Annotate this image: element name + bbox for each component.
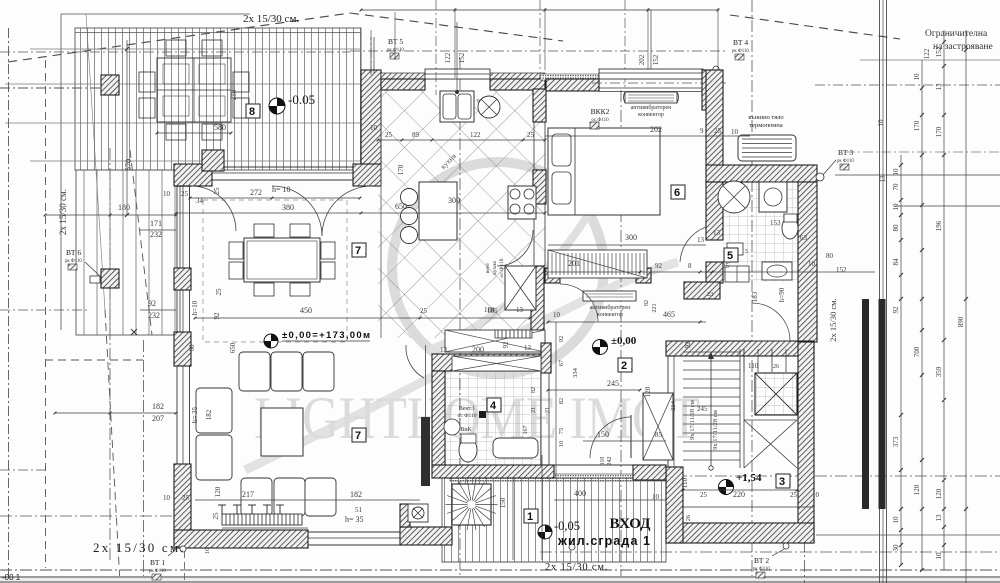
wc 4 tiles — [445, 373, 541, 465]
svg-text:7: 7 — [355, 245, 361, 257]
kitchen diagonal tile floor — [378, 90, 545, 338]
stair direction line — [710, 352, 712, 468]
svg-text:465: 465 — [663, 310, 675, 319]
svg-text:2х 15/30 см.: 2х 15/30 см. — [828, 298, 838, 341]
svg-text:.: . — [365, 433, 367, 442]
svg-text:182: 182 — [205, 409, 213, 420]
svg-text:182: 182 — [152, 402, 164, 411]
coffee table — [261, 408, 303, 456]
wc east wall upper — [541, 343, 551, 373]
kitchen west wall upper — [361, 70, 381, 170]
svg-text:120: 120 — [214, 486, 222, 497]
living east wall pier — [421, 417, 430, 486]
svg-text:10: 10 — [652, 493, 660, 501]
room label 4 — [487, 398, 501, 412]
benchmark -0.05 terrace — [269, 98, 285, 114]
svg-text:110: 110 — [681, 477, 689, 488]
svg-text:30: 30 — [892, 544, 900, 552]
svg-text:10: 10 — [892, 168, 900, 176]
stairs north wall — [666, 341, 814, 356]
svg-text:10: 10 — [892, 516, 900, 524]
svg-text:63: 63 — [800, 234, 808, 242]
svg-text:245: 245 — [697, 405, 708, 413]
dash-dot vertical axis x=460 — [459, 58, 461, 583]
svg-text:10: 10 — [163, 190, 171, 198]
svg-text:ВТ 4: ВТ 4 — [733, 38, 748, 47]
svg-text:h= 35: h= 35 — [345, 515, 364, 524]
svg-text:7: 7 — [355, 430, 361, 442]
svg-text:26: 26 — [773, 364, 779, 370]
svg-text:рк Ф110: рк Ф110 — [837, 159, 854, 164]
dining north wall left block — [174, 164, 212, 186]
svg-text:272: 272 — [250, 188, 262, 197]
svg-text:±0,00: ±0,00 — [611, 335, 637, 347]
svg-text:10: 10 — [913, 73, 921, 81]
svg-text:188: 188 — [484, 306, 495, 314]
sofa top row — [239, 352, 270, 391]
tv bench — [222, 514, 302, 525]
svg-text:196: 196 — [935, 220, 943, 231]
svg-text:8: 8 — [249, 106, 255, 118]
svg-text:10: 10 — [163, 494, 171, 502]
south sliding window living — [308, 531, 440, 533]
svg-text:конвектор: конвектор — [638, 112, 664, 118]
entrance door leaf and arc — [630, 415, 632, 458]
deck outer frame corner — [60, 14, 62, 330]
svg-text:2х 15/30 см.: 2х 15/30 см. — [58, 189, 68, 235]
bathroom east wall — [798, 182, 817, 342]
kitchen island — [419, 182, 457, 240]
stair flight treads — [683, 349, 786, 468]
svg-text:10: 10 — [812, 491, 820, 499]
dining chairs — [254, 224, 274, 237]
kitchen north wall insulation strip — [381, 73, 545, 79]
bathroom vanity squares — [725, 266, 749, 282]
svg-text:5: 5 — [727, 250, 733, 262]
svg-text:232: 232 — [150, 230, 162, 239]
dining north window — [212, 166, 353, 168]
terrace chairs — [166, 40, 186, 56]
svg-text:245: 245 — [607, 379, 619, 388]
left deck strip — [76, 170, 180, 335]
wardrobe with hangers — [548, 250, 647, 278]
svg-text:25: 25 — [527, 131, 535, 139]
svg-text:400: 400 — [574, 489, 586, 498]
svg-text:13: 13 — [935, 514, 943, 522]
bedroom top dim row — [545, 135, 750, 137]
benchmark hall — [593, 340, 608, 355]
svg-text:67: 67 — [558, 359, 565, 366]
svg-text:580: 580 — [214, 123, 226, 132]
hall north wall stub — [636, 268, 651, 283]
svg-text:82: 82 — [558, 398, 565, 405]
svg-text:.: . — [537, 514, 539, 523]
dashed diagonal through left strip — [130, 150, 152, 335]
property boundary dash-dot left — [8, 28, 10, 583]
svg-text:92: 92 — [148, 299, 156, 308]
svg-text:80: 80 — [892, 224, 900, 232]
bedroom convector — [625, 92, 677, 103]
svg-text:термопомпа: термопомпа — [749, 122, 782, 129]
dining table — [244, 238, 320, 282]
svg-text:171: 171 — [150, 219, 162, 228]
entrance north wall (hall south) — [554, 464, 666, 466]
svg-text:9х 17/11/28 см: 9х 17/11/28 см — [712, 410, 719, 450]
svg-text:.: . — [789, 479, 791, 488]
south wall living — [174, 530, 308, 548]
svg-text:182: 182 — [350, 490, 362, 499]
svg-text:122: 122 — [444, 52, 452, 63]
tv marks — [218, 505, 284, 514]
svg-text:23: 23 — [707, 291, 714, 298]
bathroom north wall — [706, 165, 817, 182]
porch corner wall v — [400, 504, 410, 527]
svg-text:ВТ 6: ВТ 6 — [66, 248, 81, 257]
svg-text:110: 110 — [600, 457, 606, 466]
terrace deck top-left with plank hatch — [75, 28, 361, 170]
stairs south wall — [666, 523, 814, 543]
bathroom west wall lower — [706, 262, 723, 283]
svg-text:h=10: h=10 — [191, 300, 199, 315]
svg-text:110: 110 — [748, 362, 759, 370]
kitchen north wall left block — [381, 79, 425, 90]
svg-text:25: 25 — [213, 187, 221, 195]
svg-text:2х 15/30 см.: 2х 15/30 см. — [93, 540, 186, 555]
svg-text:84: 84 — [892, 258, 900, 266]
svg-text:10: 10 — [877, 119, 885, 127]
dining area dashed outline — [203, 200, 347, 342]
deck post 3 — [101, 269, 119, 288]
axis horizontal y=52 left part — [0, 51, 350, 53]
svg-text:+1,54: +1,54 — [736, 472, 762, 484]
kitchen north wall right block — [490, 79, 545, 90]
svg-text:h= 35: h= 35 — [191, 406, 199, 423]
hall closet x-box — [643, 393, 673, 460]
stairs entry door arc — [752, 303, 790, 341]
setback diagonal dashed line top — [8, 13, 350, 62]
svg-text:ос Ф110: ос Ф110 — [457, 413, 476, 419]
road lines bottom — [0, 576, 1000, 583]
fridge with cross — [505, 266, 536, 310]
bar stools — [401, 189, 418, 206]
svg-text:183: 183 — [751, 291, 759, 302]
svg-text:92: 92 — [213, 312, 221, 320]
svg-text:202: 202 — [650, 125, 662, 134]
faint slanted line — [86, 14, 105, 310]
svg-text:h= 10: h= 10 — [272, 185, 291, 194]
svg-text:170: 170 — [397, 164, 405, 175]
svg-text:92: 92 — [655, 262, 663, 270]
svg-text:152: 152 — [652, 54, 660, 65]
wc4 toilet — [459, 438, 477, 462]
svg-text:51: 51 — [355, 506, 363, 514]
wc south wall — [432, 465, 554, 478]
x-brace closet top of wc — [452, 356, 541, 371]
svg-text:10: 10 — [731, 128, 739, 136]
svg-text:9х 17/11/28 см: 9х 17/11/28 см — [689, 400, 696, 440]
svg-text:122: 122 — [923, 48, 931, 59]
right boundary thin verticals — [879, 0, 881, 583]
svg-text:4: 4 — [490, 400, 497, 412]
entrance deck planks bottom — [442, 478, 666, 562]
svg-text:-0,05: -0,05 — [554, 519, 580, 533]
svg-text:конвектор: конвектор — [597, 312, 623, 318]
svg-text:300: 300 — [448, 196, 460, 205]
svg-text:1: 1 — [527, 511, 533, 523]
svg-text:жил.сграда 1: жил.сграда 1 — [557, 534, 650, 548]
svg-text:25: 25 — [385, 131, 393, 139]
room label 5 — [724, 248, 738, 262]
entrance threshold wall block — [633, 465, 666, 480]
bathroom west wall upper — [706, 182, 723, 240]
svg-text:9: 9 — [700, 127, 704, 135]
svg-text:220: 220 — [733, 490, 745, 499]
svg-text:рк Ф110: рк Ф110 — [65, 259, 82, 264]
small pit with circle — [408, 504, 428, 522]
dining double door arcs — [272, 186, 322, 236]
svg-text:25: 25 — [714, 127, 722, 135]
svg-text:221: 221 — [652, 304, 658, 313]
svg-text:359: 359 — [935, 366, 943, 377]
dash-dot vertical axis x=621 — [620, 90, 622, 583]
bathroom 5 tiles — [723, 182, 798, 282]
hall-bedroom door arc — [560, 284, 598, 322]
svg-text:92: 92 — [558, 336, 565, 343]
dash-dot level line right — [615, 475, 1000, 477]
deck post 1 — [101, 75, 119, 95]
svg-text:външно тяло: външно тяло — [748, 114, 783, 121]
svg-text:2: 2 — [621, 360, 627, 372]
svg-text:10: 10 — [935, 552, 943, 560]
svg-text:25: 25 — [722, 262, 730, 270]
benchmark living room — [264, 334, 278, 348]
svg-text:450: 450 — [300, 306, 312, 315]
svg-text:25: 25 — [212, 512, 220, 520]
svg-text:82: 82 — [531, 387, 537, 393]
wc north wall — [432, 354, 551, 371]
svg-text:152: 152 — [836, 266, 847, 274]
svg-text:10: 10 — [553, 311, 561, 319]
svg-text:ВТ 3: ВТ 3 — [838, 148, 853, 157]
svg-text:650: 650 — [395, 202, 407, 211]
svg-text:.: . — [259, 109, 261, 118]
room label 1 — [524, 509, 538, 523]
svg-text:200: 200 — [472, 345, 484, 354]
svg-text:10: 10 — [892, 203, 900, 211]
svg-text:.: . — [365, 248, 367, 257]
svg-text:217: 217 — [242, 490, 254, 499]
corridor door arc — [497, 230, 533, 266]
terrace table — [157, 58, 231, 122]
right side axis lines — [815, 84, 1000, 86]
dashed horizontal setback — [45, 359, 143, 361]
svg-text:75: 75 — [558, 428, 565, 435]
svg-text:70: 70 — [892, 183, 900, 191]
axis horizontal y=51 — [350, 50, 725, 52]
svg-text:13: 13 — [440, 346, 448, 354]
bed — [548, 128, 660, 215]
watermark logo ring — [245, 162, 678, 470]
svg-text:280: 280 — [230, 89, 238, 100]
svg-text:122: 122 — [470, 131, 481, 139]
svg-text:334: 334 — [572, 367, 579, 378]
svg-text:рк Ф110: рк Ф110 — [387, 48, 404, 53]
deck joints — [30, 48, 361, 50]
svg-text:25: 25 — [181, 190, 189, 198]
svg-text:ос.Ф110: ос.Ф110 — [499, 258, 505, 277]
bedroom north wall left block — [546, 79, 599, 91]
kitchen north window — [425, 69, 490, 79]
svg-text:10: 10 — [370, 124, 378, 132]
svg-text:150: 150 — [597, 430, 609, 439]
svg-text:25: 25 — [700, 491, 708, 499]
west wall with windows — [176, 185, 191, 187]
svg-text:10: 10 — [808, 260, 816, 268]
svg-text:120: 120 — [644, 386, 652, 397]
bedroom north wall dotted band — [540, 74, 599, 80]
retaining wall thick bars right — [862, 299, 869, 509]
svg-text:26: 26 — [685, 514, 692, 521]
hall side dim chain — [555, 322, 557, 478]
west wall block 3 — [174, 332, 191, 366]
svg-text:вент: вент — [485, 262, 491, 273]
svg-text:25: 25 — [215, 288, 223, 296]
svg-text:80: 80 — [826, 252, 834, 260]
svg-text:300: 300 — [625, 233, 637, 242]
end-of-deck x mark — [131, 329, 137, 335]
svg-text:±0,00=+173,00м: ±0,00=+173,00м — [282, 330, 370, 341]
svg-text:.: . — [631, 363, 633, 372]
svg-text:10: 10 — [558, 441, 565, 448]
svg-text:373: 373 — [892, 436, 900, 447]
heat pump unit — [738, 135, 796, 161]
svg-text:ВКК2: ВКК2 — [591, 107, 610, 116]
corridor wall below bathroom door — [684, 282, 720, 299]
svg-text:152: 152 — [935, 46, 943, 57]
room label 6 — [671, 185, 685, 199]
svg-text:рк Ф110: рк Ф110 — [149, 569, 166, 574]
svg-text:92: 92 — [892, 306, 900, 314]
hall convector — [583, 291, 636, 301]
porch column with starburst — [452, 484, 491, 525]
svg-text:6: 6 — [674, 187, 680, 199]
benchmark entrance — [538, 525, 552, 539]
svg-text:570: 570 — [124, 159, 133, 171]
sofa left column — [196, 388, 232, 433]
svg-text:кухня: кухня — [492, 261, 498, 275]
dash-dot axis x=110 — [109, 148, 111, 562]
svg-text:380: 380 — [282, 203, 294, 212]
wc toilet bath5 — [782, 217, 798, 239]
wc4 washbasin — [493, 438, 538, 458]
svg-text:ВТ 2: ВТ 2 — [754, 556, 769, 565]
svg-text:-00 1: -00 1 — [2, 573, 21, 582]
closet between kitchen and wc — [445, 330, 545, 352]
kitchen east wall seg3 — [531, 266, 544, 330]
shower circle — [718, 181, 750, 213]
svg-text:120: 120 — [913, 484, 921, 495]
svg-text:рк Ф110: рк Ф110 — [753, 567, 770, 572]
dashed vertical site line — [45, 60, 47, 568]
west wall door arc top-left — [191, 186, 236, 231]
svg-text:h=90: h=90 — [778, 287, 786, 302]
bedroom top dim stub — [650, 10, 652, 70]
svg-text:.: . — [684, 190, 686, 199]
bathroom door arc — [680, 227, 706, 262]
elevator shaft x-box — [755, 373, 797, 415]
svg-text:201: 201 — [568, 259, 580, 268]
svg-text:92: 92 — [502, 341, 510, 349]
room label 7 — [352, 428, 366, 442]
svg-text:167: 167 — [523, 426, 529, 435]
entrance deck edge dotted strip — [450, 474, 666, 481]
faucet — [455, 90, 459, 94]
svg-text:232: 232 — [148, 311, 160, 320]
pipe circle NE corner — [713, 66, 719, 72]
svg-text:3: 3 — [779, 476, 785, 488]
svg-text:25: 25 — [182, 494, 190, 502]
west wall block bottom — [174, 464, 191, 540]
svg-text:13: 13 — [516, 306, 524, 314]
svg-text:13: 13 — [524, 344, 532, 352]
svg-text:60: 60 — [188, 344, 196, 352]
room label 3 — [776, 474, 790, 488]
svg-text:2х 15/30 см.: 2х 15/30 см. — [545, 562, 608, 573]
stairs east wall — [798, 342, 814, 543]
small sink top — [727, 243, 743, 255]
bedroom north window — [599, 69, 703, 79]
svg-text:Вент.1: Вент.1 — [459, 406, 476, 412]
svg-text:82: 82 — [644, 300, 650, 306]
svg-text:ВТ 1: ВТ 1 — [150, 558, 165, 567]
washing machine — [759, 182, 787, 212]
stairs west wall bottom — [666, 467, 683, 543]
svg-text:21: 21 — [545, 407, 551, 413]
svg-text:180: 180 — [118, 203, 130, 212]
svg-text:207: 207 — [152, 414, 164, 423]
svg-text:13: 13 — [697, 236, 705, 244]
room label 8 — [246, 104, 260, 118]
svg-text:152: 152 — [458, 52, 466, 63]
kitchen counter line — [380, 90, 382, 338]
svg-text:5: 5 — [745, 249, 748, 255]
svg-text:120: 120 — [935, 488, 943, 499]
svg-text:242: 242 — [607, 457, 613, 466]
porch corner wall — [400, 527, 452, 545]
bedroom east wall — [706, 70, 723, 170]
svg-text:ВХОД: ВХОД — [610, 516, 652, 532]
deck post 2 — [202, 150, 224, 171]
svg-text:8: 8 — [688, 262, 692, 270]
svg-text:224: 224 — [670, 400, 677, 411]
svg-text:25: 25 — [420, 307, 428, 315]
round bin — [478, 96, 500, 118]
axis stubs top — [435, 0, 437, 95]
kitchen east wall seg1 — [533, 89, 546, 122]
wc4 boiler — [444, 419, 460, 435]
wc door arc — [406, 345, 424, 378]
wc west wall — [432, 371, 445, 465]
svg-text:153: 153 — [770, 219, 781, 227]
svg-text:антивибраторен: антивибраторен — [631, 104, 673, 111]
wall bedroom south / hall north — [545, 268, 560, 283]
svg-text:202: 202 — [638, 54, 646, 65]
west wall block 2 — [174, 268, 191, 290]
pillows — [552, 134, 571, 166]
svg-text:рк Ф110: рк Ф110 — [732, 49, 749, 54]
cooktop 4 burners — [508, 186, 536, 219]
svg-text:170: 170 — [913, 120, 921, 131]
